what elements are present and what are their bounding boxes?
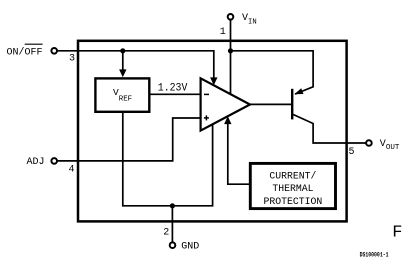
current/thermal protection box (250, 163, 335, 208)
svg-text:2: 2 (163, 228, 169, 239)
IC boundary box (78, 41, 347, 222)
junction dot V_IN node (228, 48, 233, 53)
minus sign inverting input (204, 93, 209, 95)
arrowhead into VREF box (119, 69, 126, 77)
arrowhead protection into op-amp bottom edge (224, 116, 231, 124)
op-amp U1 error amplifier (201, 78, 250, 130)
label ON/OFF (7, 44, 43, 58)
terminal ADJ (pin 4) (51, 158, 57, 164)
label CURRENT/THERMAL PROTECTION (264, 170, 323, 207)
svg-text:DS100001-1: DS100001-1 (360, 252, 389, 257)
terminal V_OUT (pin 5) (366, 140, 372, 146)
svg-text:3: 3 (69, 53, 75, 64)
wire collector to V_OUT (293, 115, 366, 144)
svg-text:5: 5 (349, 147, 355, 158)
wire ADJ to non-inverting input (57, 118, 200, 161)
plus sign non-inverting input (204, 115, 209, 120)
arrowhead emitter (PNP, pointing into base bar) (294, 88, 303, 94)
svg-text:CURRENT/: CURRENT/ (269, 170, 316, 181)
wire ground node to GND terminal (171, 206, 173, 243)
wire current/thermal protection to op-amp (228, 123, 251, 184)
wire V_IN node to pass transistor emitter (231, 51, 314, 94)
svg-text:4: 4 (69, 165, 75, 176)
wire VREF output 1.23V to inverting input (149, 93, 201, 95)
wire junction down into VREF (122, 51, 124, 71)
svg-text:THERMAL: THERMAL (272, 183, 313, 194)
terminal V_IN (pin 1) (228, 14, 234, 20)
junction dot ON/OFF line to VREF (120, 48, 125, 53)
svg-text:1.23V: 1.23V (158, 83, 188, 95)
transistor Q1 base bar (291, 89, 293, 120)
svg-text:F: F (392, 224, 402, 243)
wire op-amp output to transistor base (249, 103, 291, 105)
svg-text:GND: GND (181, 241, 199, 252)
wire ON/OFF to error-amp shutdown input (57, 51, 213, 80)
svg-text:ADJ: ADJ (27, 157, 45, 168)
terminal ON/OFF (pin 3) (51, 48, 57, 54)
svg-text:1: 1 (220, 27, 226, 38)
VREF box (95, 78, 149, 111)
wire V_IN down to op-amp supply (230, 20, 232, 94)
junction dot ground node (170, 203, 175, 208)
wire VREF bottom to ground node and op-amp bottom (123, 112, 213, 206)
terminal GND (pin 2) (170, 242, 176, 248)
arrowhead into op-amp top edge (210, 77, 217, 85)
svg-text:PROTECTION: PROTECTION (264, 196, 323, 207)
svg-text:ON/OFF: ON/OFF (7, 46, 43, 58)
